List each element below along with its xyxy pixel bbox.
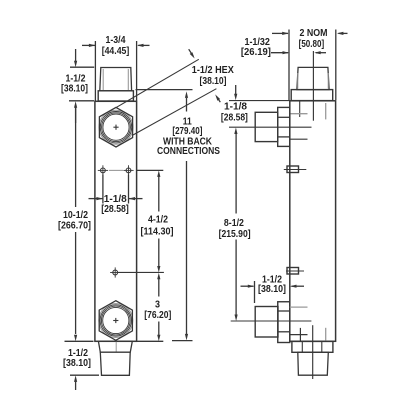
svg-text:10-1/2: 10-1/2	[63, 210, 88, 221]
left mounting hole	[98, 165, 108, 175]
label 1-1/2 HEX	[192, 65, 234, 87]
svg-text:[38.10]: [38.10]	[258, 284, 286, 295]
dim 1-1/2 top left	[61, 49, 94, 123]
top port block	[255, 112, 278, 141]
svg-text:[76.20]: [76.20]	[144, 310, 171, 321]
svg-text:[38.10]: [38.10]	[63, 358, 91, 369]
svg-text:1-1/8: 1-1/8	[224, 102, 247, 113]
lower tab	[286, 268, 304, 275]
dim 1-1/32	[241, 37, 326, 100]
side view top cap	[291, 67, 333, 100]
hole centerline	[109, 169, 123, 171]
front view body	[95, 101, 137, 341]
side bottom pipe	[298, 352, 329, 375]
lower mounting hole	[110, 267, 120, 277]
dim 1-1/2 side port	[241, 275, 305, 303]
side body internal lines bottom	[290, 328, 326, 342]
dim 1-1/2 bottom left	[63, 348, 99, 390]
svg-text:[38.10]: [38.10]	[200, 76, 227, 87]
side bottom collar	[292, 341, 333, 352]
svg-text:[38.10]: [38.10]	[61, 84, 88, 95]
dim 10-1/2 overall	[58, 108, 94, 342]
bottom port block	[255, 307, 278, 338]
dim 2 NOM	[272, 28, 348, 100]
dim 11 with back connections	[136, 90, 221, 341]
top hex nut	[99, 107, 133, 147]
svg-text:[114.30]: [114.30]	[141, 227, 174, 238]
bottom pipe centerline	[312, 325, 314, 379]
hex label leader line	[117, 59, 199, 107]
svg-text:[26.19]: [26.19]	[241, 47, 271, 58]
dim 8-1/2	[219, 134, 312, 322]
upper tab	[284, 166, 307, 173]
svg-text:1-1/2 HEX: 1-1/2 HEX	[192, 65, 234, 76]
bottom hex nut	[99, 301, 133, 341]
svg-text:4-1/2: 4-1/2	[148, 215, 168, 226]
bottom port hex band	[278, 302, 290, 343]
svg-text:[50.80]: [50.80]	[299, 39, 325, 50]
svg-text:1-3/4: 1-3/4	[106, 35, 126, 46]
svg-text:2 NOM: 2 NOM	[300, 28, 328, 39]
svg-text:[44.45]: [44.45]	[102, 46, 130, 57]
right mounting hole	[123, 165, 133, 175]
front view top cap	[98, 68, 133, 102]
top port hex band	[278, 107, 290, 146]
dim 1-1/8 hole spacing	[89, 175, 143, 216]
bottom port hidden line	[290, 306, 308, 308]
svg-text:[28.58]: [28.58]	[101, 204, 129, 215]
hex label leader line 2	[133, 89, 216, 135]
side view body	[290, 101, 336, 341]
svg-text:[266.70]: [266.70]	[58, 221, 91, 232]
lower hole centerline	[118, 271, 164, 273]
hex label leader arrow lower	[215, 94, 220, 102]
side cap centerline	[312, 51, 314, 121]
hex label leader arrow upper	[189, 49, 195, 58]
svg-text:8-1/2: 8-1/2	[224, 218, 244, 229]
svg-text:[215.90]: [215.90]	[219, 229, 251, 240]
svg-text:CONNECTIONS: CONNECTIONS	[157, 146, 220, 157]
side body internal lines top	[290, 101, 326, 139]
dim 1-1/8 side	[221, 85, 312, 134]
dim 4-1/2	[137, 170, 174, 272]
dim 3	[137, 273, 172, 342]
front bottom collar	[98, 341, 132, 352]
dim 1-3/4 top width	[82, 35, 150, 101]
svg-text:[28.58]: [28.58]	[221, 113, 248, 124]
svg-text:[279.40]: [279.40]	[172, 126, 202, 137]
svg-text:3: 3	[155, 300, 160, 311]
front bottom pipe	[100, 352, 130, 375]
